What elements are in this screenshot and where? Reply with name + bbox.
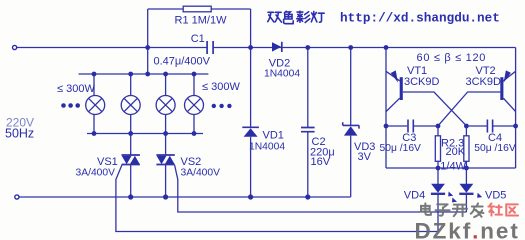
svg-text:C1: C1 [191, 33, 205, 45]
svg-text:3A/400V: 3A/400V [76, 168, 116, 179]
svg-text:VD5: VD5 [485, 190, 506, 202]
svg-text:3CK9D: 3CK9D [466, 76, 502, 88]
svg-text:R1 1M/1W: R1 1M/1W [175, 14, 228, 26]
svg-text:3V: 3V [358, 151, 372, 163]
svg-text:≤ 300W: ≤ 300W [202, 81, 240, 93]
svg-text:16V: 16V [311, 156, 331, 168]
svg-text:http://xd.shangdu.net: http://xd.shangdu.net [340, 10, 500, 25]
svg-text:1N4004: 1N4004 [264, 69, 300, 80]
svg-text:≤ 300W: ≤ 300W [57, 83, 95, 95]
svg-text:1N4004: 1N4004 [249, 141, 285, 152]
svg-text:VD1: VD1 [263, 130, 284, 142]
svg-text:50μ /16V: 50μ /16V [474, 143, 516, 154]
svg-text:VD4: VD4 [404, 190, 425, 202]
svg-text:3CK9D: 3CK9D [404, 76, 440, 88]
svg-text:0.47μ/400V: 0.47μ/400V [154, 56, 211, 68]
svg-text:50Hz: 50Hz [5, 127, 34, 141]
svg-text:60 ≤ β ≤ 120: 60 ≤ β ≤ 120 [417, 52, 487, 64]
svg-text:VS2: VS2 [181, 156, 202, 168]
svg-text:DZkf.net: DZkf.net [415, 219, 520, 240]
svg-text:3A/400V: 3A/400V [181, 168, 221, 179]
svg-text:VS1: VS1 [97, 156, 118, 168]
svg-text:20K: 20K [446, 146, 466, 158]
svg-text:1/4W: 1/4W [440, 161, 466, 173]
svg-text:50μ /16V: 50μ /16V [380, 143, 422, 154]
